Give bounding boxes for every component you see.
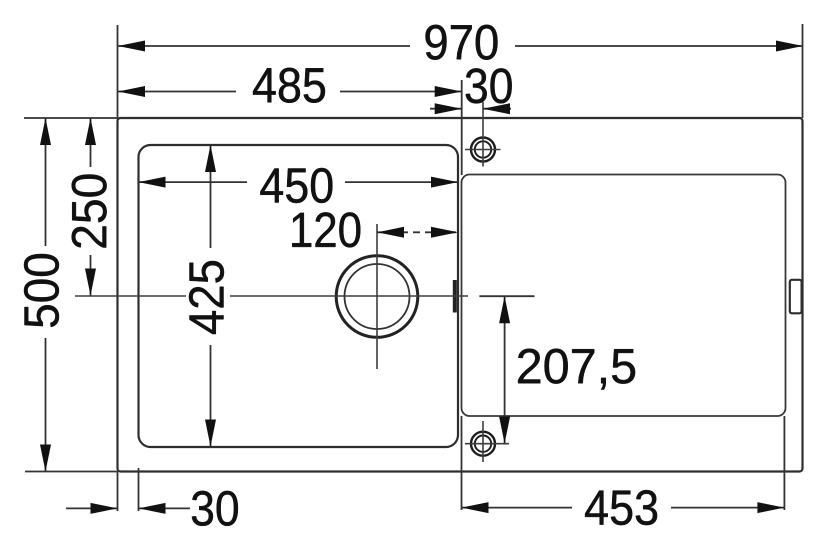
dimension 30 bottom arrows <box>66 507 118 509</box>
dimension 450 line <box>139 181 459 183</box>
extension below drainboard right edge <box>783 416 785 510</box>
extension below bowl left edge <box>138 468 140 511</box>
dimension 30 top label <box>466 68 512 103</box>
dimension 30 bottom label <box>192 491 238 526</box>
dimension 425 line <box>210 145 212 447</box>
drainboard outline <box>462 175 786 417</box>
dimension 453 label <box>572 486 671 528</box>
dimension 450 label <box>247 162 345 202</box>
dimension 250 arrows <box>85 118 96 145</box>
centerline extension toward 207,5 dim <box>479 295 534 297</box>
dimension 207,5 label <box>518 349 635 390</box>
dimension 450 arrows <box>139 177 166 188</box>
dimension 120 arrows <box>377 227 404 238</box>
extension line top left vertical <box>117 25 119 118</box>
extension bottom edge leftward <box>25 471 118 473</box>
drain circle inner <box>345 264 410 329</box>
dimension 250 label <box>70 167 110 255</box>
overflow marker on right rim <box>790 280 802 314</box>
drain vertical centerline <box>376 224 378 369</box>
dimension 485 arrows <box>118 86 145 97</box>
drain circle outer <box>336 256 418 338</box>
dimension 425 label <box>186 248 230 345</box>
main bowl outline <box>139 145 459 447</box>
overflow tick on bowl right wall <box>453 280 457 313</box>
dimension 970 arrows <box>118 41 145 52</box>
dimension 207,5 line <box>504 296 506 443</box>
extension below drainboard left edge <box>461 416 463 510</box>
dimension 425 arrows <box>205 145 216 172</box>
dimension 453 line <box>462 507 785 509</box>
extension line top right vertical <box>802 24 804 118</box>
dimension 970 line <box>118 45 803 47</box>
dimension 250 line <box>90 118 92 296</box>
dimension 970 label <box>410 22 515 62</box>
dimension 485 line <box>118 91 462 93</box>
faucet hole bottom <box>465 421 509 462</box>
dimension 120 dashed line <box>377 231 458 233</box>
faucet hole top <box>465 102 501 167</box>
dimension 500 arrows <box>40 118 51 145</box>
dimension 120 label <box>292 212 360 247</box>
sink outer outline <box>118 118 803 472</box>
extension below bottom left outer <box>117 472 119 512</box>
dimension 453 arrows <box>462 502 489 513</box>
dimension 485 label <box>236 66 340 104</box>
extension line x462 <box>461 80 463 175</box>
dimension 30 top arrows <box>430 108 462 110</box>
dimension 500 label <box>24 246 64 338</box>
dimension 500 line <box>45 118 47 472</box>
extension top edge leftward <box>24 117 118 119</box>
bowl horizontal centerline <box>75 295 468 297</box>
dimension 207,5 arrows <box>499 296 510 323</box>
